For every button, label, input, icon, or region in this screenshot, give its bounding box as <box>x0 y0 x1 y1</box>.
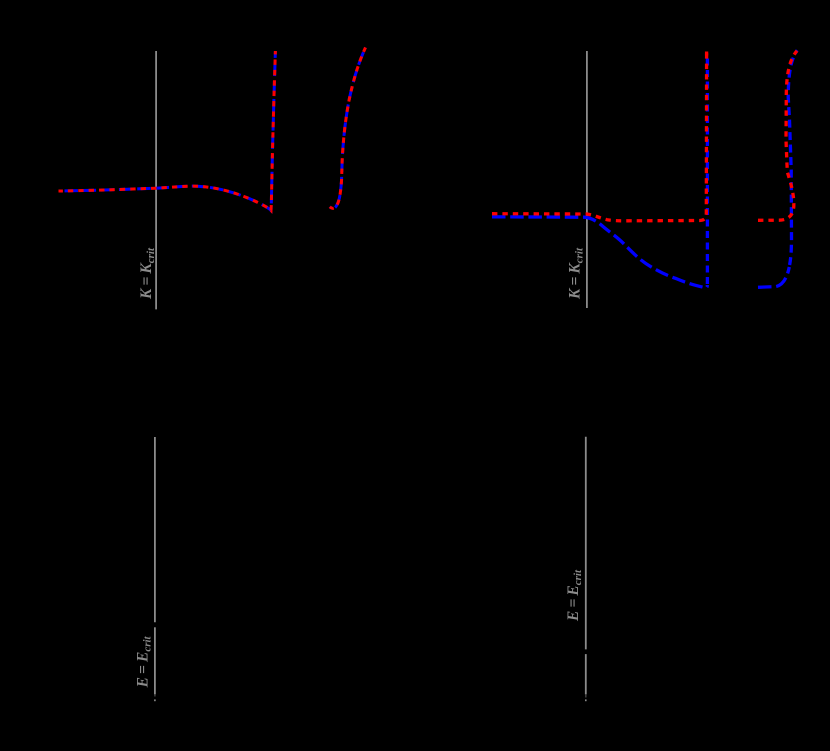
red dashed curve branch 2 (top-right plot) <box>758 51 797 221</box>
red dashed curve branch 2 (top-left plot) <box>330 48 366 209</box>
blue dashed curve branch 2, flat part (top-right plot) <box>758 267 789 287</box>
faint line end fade (bottom-right plot) <box>585 694 587 697</box>
vertical gray line E=Ecrit lower segment (bottom-left plot) <box>154 627 156 694</box>
tick mark below axis (bottom-right plot) <box>585 699 587 701</box>
blue dashed curve branch 1 (top-left plot) <box>59 48 366 211</box>
red tip dash at top of vertical (top-right plot) <box>705 52 708 56</box>
vertical gray line K=Kcrit (top-right plot) <box>586 51 588 308</box>
vertical gray line K=Kcrit (top-left plot) <box>155 51 157 309</box>
blue dashed curve branch 2, vertical part (top-right plot) <box>788 50 797 265</box>
tick mark below axis (bottom-left plot) <box>154 699 156 701</box>
blue dashed curve branch 1, vertical part (top-right plot) <box>706 55 709 284</box>
red dashed curve branch 1 (top-right plot) <box>492 52 707 221</box>
vertical gray line E=Ecrit lower segment (bottom-right plot) <box>585 654 587 694</box>
red dashed curve branch 1 (top-left plot) <box>59 51 276 210</box>
blue dashed curve branch 2 (top-left plot) <box>330 48 366 209</box>
vertical gray line E=Ecrit upper segment (bottom-right plot) <box>585 437 587 650</box>
faint line end fade (bottom-left plot) <box>154 694 156 696</box>
vertical gray line E=Ecrit upper segment (bottom-left plot) <box>154 437 156 622</box>
blue dashed curve branch 1, flat+dip part (top-right plot) <box>492 217 707 288</box>
